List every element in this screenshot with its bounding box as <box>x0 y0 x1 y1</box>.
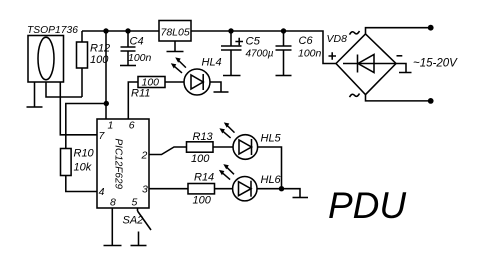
svg-text:~15-20V: ~15-20V <box>413 58 458 70</box>
svg-text:PDU: PDU <box>328 185 406 226</box>
terminal top <box>428 25 434 31</box>
wire R14 to HL6 <box>215 188 233 190</box>
svg-text:4: 4 <box>99 186 105 198</box>
LED HL5 <box>233 135 258 160</box>
wire R11 right to HL4 <box>165 81 184 83</box>
ground VD8 minus <box>396 64 412 73</box>
AC squiggle top <box>350 31 360 35</box>
svg-text:5: 5 <box>132 197 138 209</box>
wire R11 left to pin6 <box>128 82 138 119</box>
AC squiggle bottom <box>350 94 360 98</box>
capacitor C5 <box>230 31 232 46</box>
TSOP pin 2 wire <box>46 82 82 97</box>
svg-text:TSOP1736: TSOP1736 <box>27 25 78 36</box>
node dot rail pin1 <box>103 28 108 33</box>
ground pin8 <box>104 245 122 247</box>
svg-text:8: 8 <box>110 197 116 209</box>
ground C5 <box>223 75 241 77</box>
LED HL4 arrows <box>173 60 186 73</box>
wire bridge top output <box>366 28 431 34</box>
svg-text:4700µ: 4700µ <box>246 48 274 59</box>
wire HL4 to ground <box>210 82 221 92</box>
node dot pin1/R10 <box>104 101 109 106</box>
svg-text:R12: R12 <box>90 42 110 54</box>
wire HL5 cathode down <box>258 147 282 189</box>
wire R12 top to rail <box>81 31 83 42</box>
svg-text:VD8: VD8 <box>327 33 348 45</box>
ground SA2 <box>131 245 147 247</box>
regulator 78L05 <box>159 21 191 42</box>
node dot HL5/HL6 <box>279 186 284 191</box>
wire pin3 to R14 <box>149 188 188 190</box>
svg-text:R11: R11 <box>131 88 150 100</box>
svg-text:2: 2 <box>141 150 148 162</box>
svg-text:SA2: SA2 <box>123 215 144 227</box>
node dot rail C6 <box>281 28 286 33</box>
wire pin8 to ground <box>111 208 113 246</box>
resistor R13 <box>187 142 214 152</box>
svg-text:3: 3 <box>142 184 148 196</box>
wire R10 top to node <box>66 104 106 149</box>
svg-text:HL6: HL6 <box>261 174 282 186</box>
node dot rail C5 <box>228 28 233 33</box>
LED HL6 <box>233 177 257 201</box>
wire R10 bottom to pin4 <box>66 176 97 192</box>
svg-text:HL4: HL4 <box>202 57 222 69</box>
minus sign VD8 <box>397 55 403 57</box>
capacitor C4 <box>127 31 129 47</box>
ground HL4 <box>214 91 229 93</box>
svg-text:100n: 100n <box>128 52 152 64</box>
TSOP pin 3 wire to pin7 <box>60 82 97 135</box>
IC PIC12F629 <box>97 119 149 208</box>
svg-text:PIC12F629: PIC12F629 <box>113 139 124 190</box>
ground C6 <box>276 75 292 77</box>
wire rail to pin1 <box>105 31 107 119</box>
wire HL6 cathode to ground <box>257 189 300 198</box>
LED HL5 arrows <box>222 125 235 138</box>
switch SA2 <box>137 208 139 211</box>
svg-text:C5: C5 <box>246 36 261 48</box>
wire R12 bottom <box>81 68 83 97</box>
wire top rail right <box>191 31 336 64</box>
LED HL4 <box>184 69 210 95</box>
svg-text:100: 100 <box>191 153 210 165</box>
svg-text:1: 1 <box>108 120 114 132</box>
wire pin2 to R13 <box>149 147 187 155</box>
TSOP pin 1 wire <box>34 82 36 107</box>
bridge rectifier VD8 <box>336 34 396 95</box>
terminal bottom <box>428 98 434 104</box>
svg-text:C6: C6 <box>299 35 314 47</box>
svg-text:100: 100 <box>193 195 212 207</box>
svg-text:C4: C4 <box>130 36 144 48</box>
ground C4 <box>120 65 136 67</box>
TSOP1736 lens <box>38 37 54 80</box>
plus sign VD8 <box>329 52 337 59</box>
svg-text:7: 7 <box>99 130 106 142</box>
VD8 inner diode <box>358 55 374 73</box>
wire bridge bottom output <box>366 95 431 101</box>
IR receiver TSOP1736 body <box>28 36 64 83</box>
svg-text:6: 6 <box>129 120 135 132</box>
resistor R14 <box>188 184 215 194</box>
svg-text:HL5: HL5 <box>261 133 282 145</box>
ground HL6 <box>293 197 309 199</box>
svg-text:78L05: 78L05 <box>161 27 190 39</box>
svg-text:100n: 100n <box>298 48 322 60</box>
LED HL6 arrows <box>221 166 234 179</box>
svg-text:R14: R14 <box>194 172 214 184</box>
wire top rail left <box>82 30 159 32</box>
wire 78L05 gnd <box>174 41 176 52</box>
svg-text:10k: 10k <box>74 162 92 174</box>
capacitor C6 <box>283 31 285 46</box>
svg-text:R13: R13 <box>193 131 214 143</box>
resistor R11 <box>138 77 165 88</box>
ground 78L05 <box>167 51 184 53</box>
node dot rail C4 <box>125 28 130 33</box>
svg-text:R10: R10 <box>74 148 95 160</box>
resistor R12 <box>77 42 88 68</box>
ground TSOP <box>27 106 43 108</box>
wire R13 to HL5 <box>213 146 233 148</box>
resistor R10 <box>61 149 72 176</box>
